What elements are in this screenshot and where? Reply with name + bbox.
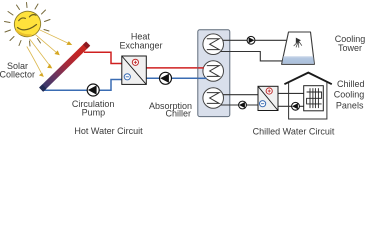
svg-text:Cooling: Cooling xyxy=(334,90,365,100)
chiller middle circle xyxy=(203,61,224,82)
chiller generator circle xyxy=(203,34,224,55)
absorption chiller xyxy=(198,30,230,117)
sun rays xyxy=(5,3,51,47)
HX2 cold port xyxy=(260,101,266,107)
sun xyxy=(5,3,51,47)
HX1 cold port xyxy=(124,74,130,80)
svg-text:Hot Water Circuit: Hot Water Circuit xyxy=(74,126,143,136)
svg-text:Chilled Water Circuit: Chilled Water Circuit xyxy=(253,127,335,137)
HX2 hot port xyxy=(266,88,272,94)
blue pipe stub into chiller xyxy=(198,77,207,79)
house walls xyxy=(284,73,331,119)
pump P4 xyxy=(239,101,247,109)
red pipe stub into chiller xyxy=(198,67,204,69)
chiller evaporator circle xyxy=(203,88,224,109)
heat exchanger HX2 xyxy=(258,86,278,110)
tower water basin xyxy=(282,56,314,64)
pump P2 xyxy=(160,72,172,84)
cooling water pipes xyxy=(221,40,299,61)
collector top cap xyxy=(85,44,88,47)
collector bottom cap xyxy=(41,87,44,90)
pump P3 xyxy=(247,36,255,44)
HX1 hot port xyxy=(132,59,138,65)
sun beams xyxy=(27,30,69,73)
svg-text:Collector: Collector xyxy=(0,69,35,79)
pump P5 xyxy=(292,102,300,110)
sun shading xyxy=(16,30,32,35)
chilled cooling panel radiator xyxy=(304,86,324,111)
svg-text:Chilled: Chilled xyxy=(337,79,365,89)
svg-text:Exchanger: Exchanger xyxy=(119,40,162,50)
sun face xyxy=(18,15,37,30)
svg-text:Chiller: Chiller xyxy=(165,108,191,118)
chilled water pipes xyxy=(221,93,310,106)
svg-text:Pump: Pump xyxy=(82,108,106,118)
solar collector xyxy=(41,44,88,90)
heat exchanger HX1 xyxy=(122,56,147,84)
hot water blue pipe xyxy=(42,78,207,90)
tower sprinkler xyxy=(294,38,302,47)
svg-text:Tower: Tower xyxy=(338,43,362,53)
svg-text:Panels: Panels xyxy=(336,100,364,110)
sun body xyxy=(11,8,44,40)
circulation pump P1 xyxy=(87,84,99,96)
house roof xyxy=(284,73,331,85)
cooling tower xyxy=(282,32,315,64)
hot water red pipe xyxy=(84,52,205,68)
